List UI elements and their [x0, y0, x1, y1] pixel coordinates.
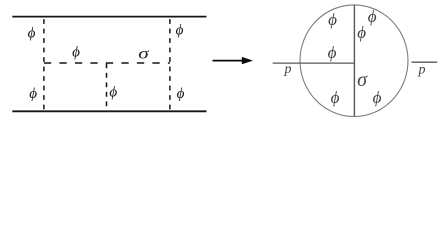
svg-text:σ: σ [138, 45, 149, 63]
left diagram: middle vertical dashed phi propagator [106, 63, 108, 110]
svg-text:ϕ: ϕ [328, 10, 337, 29]
svg-text:ϕ: ϕ [28, 25, 36, 41]
left diagram: left vertical dashed phi propagator [43, 18, 45, 111]
right diagram: left external line p and horizontal phi radius [273, 62, 355, 64]
svg-text:ϕ: ϕ [176, 23, 184, 39]
svg-text:p: p [284, 62, 292, 77]
arrow shaft [213, 60, 245, 62]
left diagram: top external line [12, 16, 206, 18]
left diagram: bottom external line [12, 110, 206, 112]
svg-text:ϕ: ϕ [368, 7, 377, 26]
right diagram: vertical diameter line (phi / sigma) [353, 5, 355, 116]
left diagram: horizontal dashed propagator (phi / sigma) [44, 62, 170, 64]
svg-text:ϕ: ϕ [331, 88, 340, 107]
svg-text:ϕ: ϕ [109, 85, 117, 101]
svg-text:ϕ: ϕ [357, 23, 366, 42]
svg-text:p: p [418, 63, 426, 78]
left diagram: right vertical dashed phi propagator [169, 18, 171, 111]
svg-text:ϕ: ϕ [29, 86, 37, 102]
svg-text:ϕ: ϕ [72, 45, 80, 61]
svg-text:σ: σ [357, 69, 368, 91]
right diagram: right external line p [412, 61, 438, 63]
arrow head [242, 57, 253, 64]
right diagram: circle (loop) [300, 5, 408, 117]
svg-text:ϕ: ϕ [373, 88, 382, 107]
svg-text:ϕ: ϕ [177, 86, 185, 102]
svg-text:ϕ: ϕ [328, 43, 337, 62]
